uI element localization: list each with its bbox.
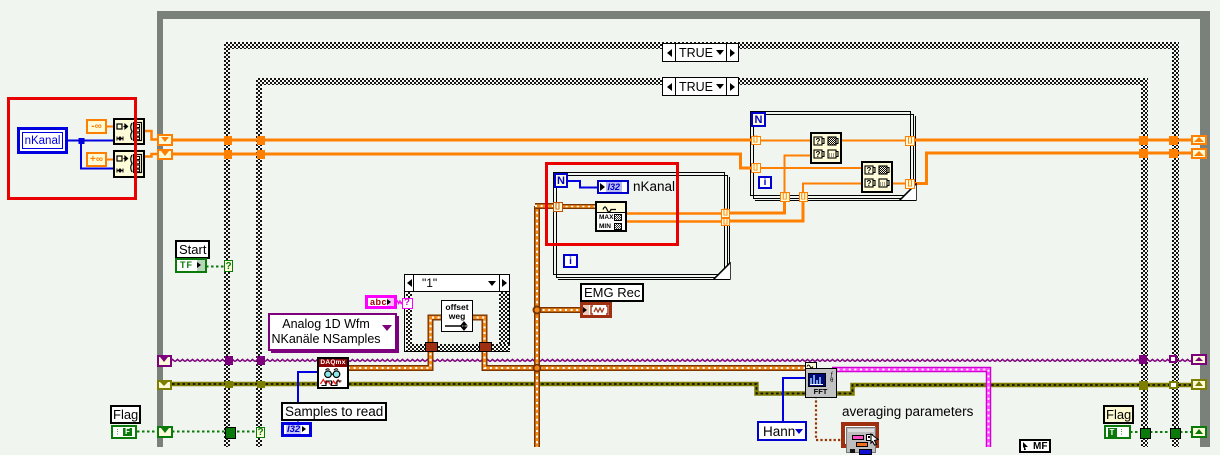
tunnel question Flag caseB — [256, 427, 265, 439]
tunnel F1 left 1 — [751, 136, 761, 146]
tunnel purple caseA — [225, 356, 233, 365]
case structure "1" left border — [406, 292, 412, 351]
case structure "1" selector — [405, 275, 509, 292]
local variable Flag right — [1104, 425, 1131, 439]
node array op icon2 — [861, 161, 893, 193]
control Start TF — [175, 258, 207, 273]
label Samples to read — [281, 402, 387, 421]
tunnel F2 right 1 — [721, 209, 730, 218]
wire pink cluster FFT out — [832, 370, 989, 448]
wire orange node2 to SR2 — [145, 154, 159, 157]
wire blue to init array 1 — [81, 140, 113, 142]
label Flag right — [1103, 405, 1134, 424]
tunnel rust case1 left — [425, 342, 438, 352]
shift register orange right 2 — [1191, 148, 1207, 159]
node MF partial — [1019, 439, 1051, 453]
node Initialize Array 1 — [113, 118, 145, 146]
wire blue Hann to FFT — [783, 378, 806, 421]
tunnel F1 bottom 1 — [780, 192, 790, 202]
shift register orange right 1 — [1191, 135, 1207, 146]
tunnel olive caseB — [257, 381, 265, 389]
tunnel olive caseA — [225, 381, 233, 389]
wire brown dotted averaging parameters — [816, 396, 842, 440]
wire blue I32 to DAQmx — [298, 372, 318, 422]
wire orange F1 bottom tunnel2 up — [803, 184, 863, 195]
wire olive error — [172, 384, 1192, 394]
junction waveform at EMG — [533, 306, 542, 315]
wire orange minmax MIN out — [626, 220, 723, 223]
svg-text:?: ? — [816, 150, 821, 159]
wire waveform DAQmx out to case 1 — [348, 345, 431, 368]
control nKanal — [17, 127, 68, 154]
indicator EMG Rec waveform — [580, 302, 612, 318]
wire orange array2 main right — [912, 153, 1192, 184]
terminal i loop F2 — [563, 254, 578, 268]
wire waveform vertical trunk — [534, 206, 540, 447]
tunnel orange caseB right 1 — [1139, 136, 1148, 145]
tunnel orange caseA right 2 — [1169, 149, 1178, 158]
node DAQmx Read — [317, 357, 349, 389]
tunnel orange caseA wire1 — [224, 136, 232, 145]
shift register purple right — [1191, 354, 1207, 365]
wire orange F1 inside to icon2 — [758, 167, 863, 169]
wire orange F1 tunnel2 down to F2 — [728, 199, 803, 221]
junction waveform at main — [533, 364, 542, 373]
wire orange +inf to node2 — [107, 159, 113, 161]
wire orange array1 main — [172, 139, 753, 142]
wire green dashed Flag left — [137, 431, 158, 433]
tunnel rust case1 right — [479, 342, 492, 352]
label Start — [175, 240, 210, 259]
label averaging parameters — [842, 404, 973, 419]
svg-text:?: ? — [816, 137, 821, 146]
tunnel orange caseA right 1 — [1169, 136, 1178, 145]
shift register olive right — [1191, 379, 1207, 391]
tunnel orange caseB right 2 — [1139, 149, 1148, 158]
case structure "1" right border — [499, 292, 509, 351]
wire pink string abc — [396, 301, 402, 304]
wire green dashed Flag SR to tunnels — [172, 431, 260, 433]
tunnel F1 left 2 — [751, 163, 761, 173]
label nKanal text — [633, 179, 675, 194]
wire orange array2 main left — [172, 154, 754, 168]
annotation red rectangle 2 — [545, 162, 679, 246]
shift register left 1 — [157, 134, 173, 146]
for loop F2 corner fold — [712, 262, 732, 281]
constant abc string — [365, 295, 397, 310]
annotation red rectangle 1 — [7, 97, 137, 200]
wire waveform case 1 out to FFT — [485, 351, 807, 368]
shift register purple left — [157, 355, 172, 367]
terminal i loop F1 — [758, 176, 772, 189]
for loop F1 corner fold — [898, 183, 918, 202]
shift register green right — [1191, 426, 1207, 438]
wire orange icon1 out — [840, 140, 908, 142]
wire orange icon2 out — [891, 183, 908, 185]
case structure A left border — [224, 42, 230, 447]
wire waveform F2 inside — [560, 204, 597, 209]
tunnel F2 left — [553, 202, 563, 212]
tunnel green caseA right — [1170, 428, 1181, 439]
tunnel purple caseA right hollow — [1169, 355, 1178, 364]
shift register olive left — [157, 380, 172, 391]
wire blue N to I32 conv — [567, 181, 598, 188]
tunnel olive caseB right — [1139, 381, 1148, 390]
case selector A TRUE — [662, 43, 739, 62]
wire waveform to EMG Rec — [537, 307, 581, 313]
case structure "1" frame — [404, 274, 510, 352]
node Initialize Array 2 — [113, 150, 145, 178]
tunnel F1 right 2 — [905, 179, 915, 189]
case structure B top border — [256, 78, 1148, 85]
tunnel question Start — [224, 260, 233, 272]
junction blue — [79, 138, 85, 144]
control I32 — [281, 422, 312, 438]
tunnel purple caseB right — [1139, 355, 1147, 364]
ring constant Hann — [757, 421, 807, 441]
wire orange F1 inside to icon1 — [758, 140, 812, 142]
tunnel orange caseB wire1 — [257, 136, 265, 145]
tunnel question abc case1 — [402, 298, 413, 310]
svg-text:?: ? — [867, 179, 872, 188]
constant cluster averaging parameters — [841, 422, 879, 448]
terminal N loop F1 — [751, 112, 766, 127]
case structure "1" bottom border — [406, 344, 510, 351]
for loop F2 frame — [553, 172, 725, 275]
wire orange F1 tunnel1 down to F2 — [728, 199, 785, 213]
tunnel F2 right 2 — [721, 218, 730, 227]
wire orange node1 to SR1 — [145, 131, 159, 140]
node waveform min max — [595, 201, 627, 232]
wire orange minmax MAX out — [626, 212, 723, 215]
wire purple DAQmx task — [172, 357, 1192, 364]
wire waveform stub into F2 — [535, 203, 556, 209]
tunnel F1 bottom 2 — [799, 192, 809, 202]
wire orange -inf to node1 — [107, 126, 113, 128]
local variable Flag left — [111, 425, 137, 439]
constant -inf — [86, 119, 107, 134]
tunnel F1 right 1 — [905, 136, 915, 146]
while loop right border — [1200, 11, 1210, 447]
wire orange F1 bottom tunnel1 up — [785, 156, 813, 195]
tunnel purple caseB — [257, 356, 265, 365]
case structure B left border — [256, 78, 262, 447]
mouse cursor — [870, 433, 880, 446]
terminal N loop F2 — [554, 173, 568, 188]
svg-text:?: ? — [867, 166, 872, 175]
wire blue to init array 2 — [81, 141, 113, 169]
wire green dashed Flag right local — [1130, 431, 1192, 433]
tunnel orange caseA wire2 — [224, 150, 232, 159]
tunnel green caseB right — [1140, 428, 1151, 439]
wire green dashed Start — [206, 266, 225, 268]
node FFT power spectrum — [805, 362, 837, 398]
tunnel green caseA — [225, 427, 236, 439]
label EMG Rec — [580, 283, 644, 302]
node To I32 conversion — [597, 180, 629, 194]
shift register left 2 — [157, 149, 173, 161]
shift register green left — [157, 426, 173, 439]
node array op icon1 — [810, 132, 842, 164]
label Flag left — [110, 405, 141, 424]
case structure A top border — [224, 42, 1179, 49]
tunnel orange caseB wire2 — [257, 150, 265, 159]
case structure B right border — [1141, 78, 1148, 447]
case selector B TRUE — [662, 77, 739, 96]
wire blue nKanal out — [68, 140, 81, 142]
subVI offset weg — [441, 300, 473, 332]
for loop F1 frame — [750, 111, 911, 196]
while loop top border — [157, 11, 1210, 19]
tunnel olive caseA right hollow — [1169, 381, 1178, 389]
wire waveform case 1 inside left — [431, 318, 444, 345]
while loop left border — [157, 11, 163, 447]
constant +inf — [86, 152, 107, 167]
ring constant Analog 1D Wfm — [268, 313, 397, 351]
wire waveform case 1 inside right — [471, 318, 485, 345]
case structure A right border — [1172, 42, 1179, 447]
